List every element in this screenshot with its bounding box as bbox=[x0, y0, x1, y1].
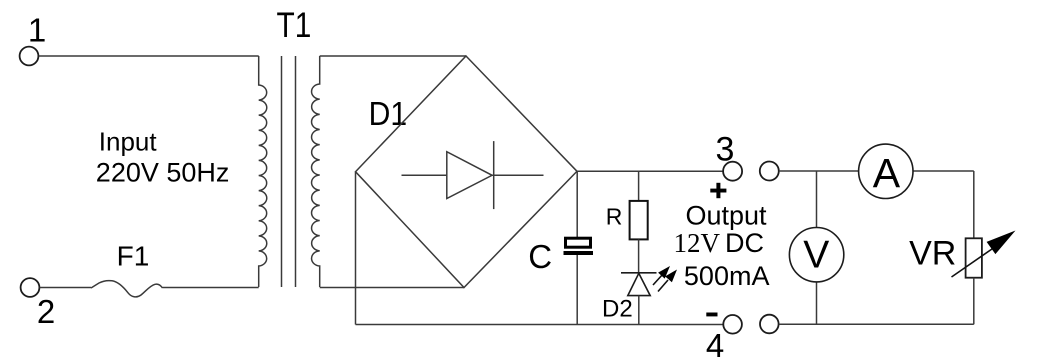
wire voltmeter branch upper bbox=[816, 171, 818, 228]
wire bridge left vertex down to bottom rail bbox=[355, 172, 357, 325]
wire terminal2 to fuse bbox=[40, 287, 91, 289]
wire terminal1 to primary top bbox=[39, 55, 259, 57]
wire capacitor branch upper bbox=[576, 171, 578, 237]
capacitor C bbox=[564, 238, 594, 255]
bridge rectifier D1 diode symbol bbox=[402, 141, 544, 209]
svg-text:1: 1 bbox=[28, 11, 46, 48]
wire bottom rail to terminal 4 bbox=[356, 324, 724, 326]
transformer T1 primary winding bbox=[259, 56, 267, 287]
svg-text:V: V bbox=[803, 234, 829, 277]
label Input 220V 50Hz bbox=[96, 126, 230, 187]
transformer T1 secondary winding bbox=[312, 56, 320, 287]
wire terminal3 mate to right loop bbox=[779, 170, 974, 172]
LED D2 bbox=[621, 273, 657, 296]
terminal 3 bbox=[723, 162, 742, 181]
svg-text:DC: DC bbox=[725, 228, 764, 258]
terminal 4 bbox=[723, 315, 742, 334]
svg-text:4: 4 bbox=[706, 327, 724, 364]
svg-text:VR: VR bbox=[909, 234, 956, 272]
svg-text:T1: T1 bbox=[277, 6, 312, 45]
svg-text:A: A bbox=[873, 150, 901, 196]
variable resistor VR bbox=[952, 231, 1016, 278]
fuse F1 bbox=[91, 281, 163, 297]
svg-text:R: R bbox=[606, 204, 623, 230]
wire resistor branch upper bbox=[638, 171, 640, 201]
svg-text:500mA: 500mA bbox=[684, 261, 770, 291]
terminal 1 bbox=[20, 47, 39, 66]
wire VR to bottom rail bbox=[973, 278, 975, 325]
wire LED to bottom rail bbox=[638, 296, 640, 325]
wire secondary top to bridge top vertex bbox=[320, 55, 466, 57]
resistor R bbox=[630, 201, 648, 240]
terminal 2 bbox=[21, 278, 40, 297]
label plus bbox=[710, 183, 726, 198]
voltmeter V bbox=[789, 228, 843, 282]
svg-text:Output: Output bbox=[685, 201, 767, 231]
wire voltmeter branch lower bbox=[816, 282, 818, 324]
transformer T1 core bbox=[282, 56, 296, 287]
bridge rectifier D1 body bbox=[356, 56, 578, 288]
svg-text:C: C bbox=[528, 238, 552, 275]
wire secondary bottom to bridge bottom vertex bbox=[320, 287, 464, 289]
ammeter A bbox=[859, 144, 913, 198]
wire terminal4 mate to right loop bbox=[779, 323, 974, 325]
svg-text:Input: Input bbox=[99, 126, 158, 156]
wire right loop down to VR bbox=[973, 171, 975, 238]
terminal 3 mate bbox=[760, 162, 779, 181]
label minus bbox=[706, 313, 717, 317]
wire bridge right vertex to terminal 3 bbox=[577, 170, 723, 172]
svg-text:D2: D2 bbox=[602, 295, 633, 322]
terminal 4 mate bbox=[760, 315, 779, 334]
LED D2 light arrows bbox=[653, 266, 677, 292]
wire resistor to LED bbox=[638, 239, 640, 273]
svg-text:12V: 12V bbox=[674, 228, 721, 258]
svg-text:220V 50Hz: 220V 50Hz bbox=[96, 157, 230, 187]
svg-text:F1: F1 bbox=[117, 240, 150, 271]
svg-text:D1: D1 bbox=[369, 95, 408, 132]
label Output 12V DC 500mA bbox=[674, 201, 770, 292]
wire capacitor branch lower bbox=[576, 255, 578, 325]
svg-text:2: 2 bbox=[37, 293, 55, 330]
wire fuse to primary bottom bbox=[163, 287, 259, 289]
